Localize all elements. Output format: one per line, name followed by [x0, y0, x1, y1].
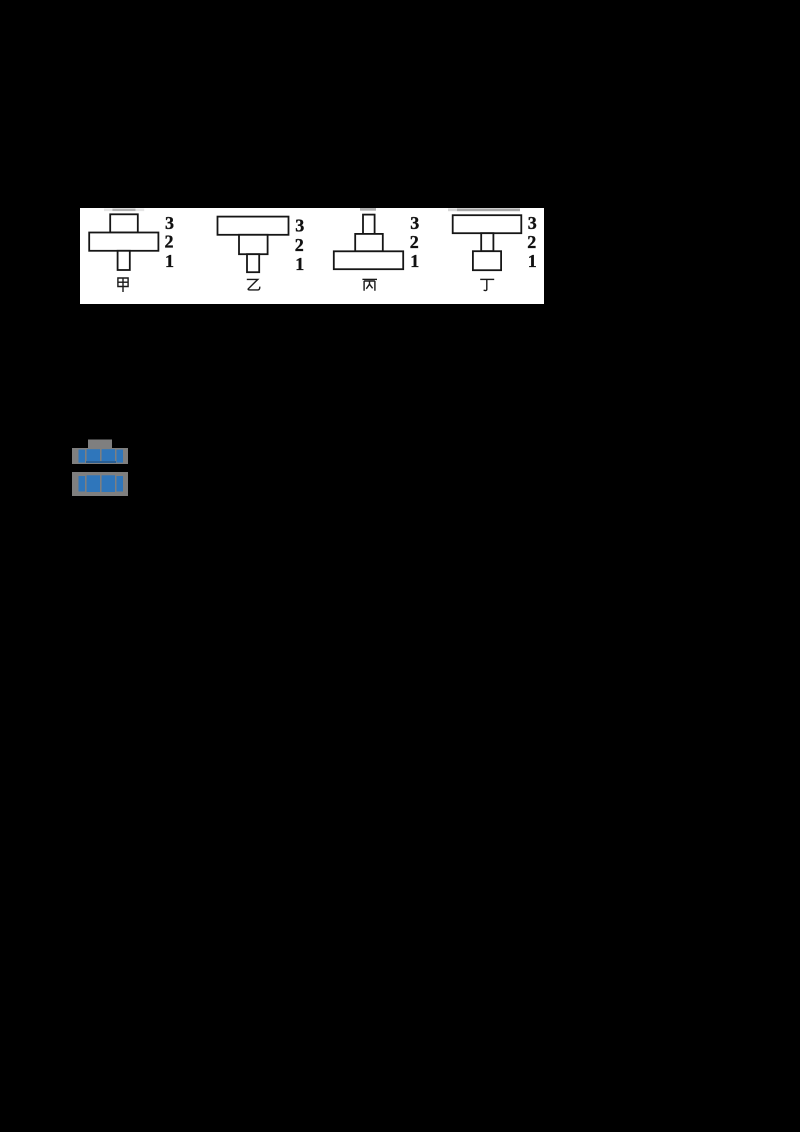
block 1 of 乙 (bottom stem)	[247, 254, 259, 272]
svg-text:3: 3	[165, 213, 174, 233]
answer row gray highlight	[72, 448, 128, 464]
block 2 of 甲 (wide middle)	[89, 233, 158, 251]
blue text 解析 row	[79, 475, 124, 492]
block 2 of 乙 (middle)	[239, 235, 268, 254]
block 1 of 丁 (bottom)	[473, 251, 501, 270]
label 甲	[118, 278, 128, 292]
analysis row gray highlight	[72, 472, 128, 496]
svg-text:3: 3	[410, 213, 419, 233]
svg-text:2: 2	[165, 232, 174, 252]
gray tab above answer row	[88, 440, 112, 449]
svg-text:1: 1	[165, 251, 174, 271]
top-edge gray smudge over 丙	[360, 208, 376, 211]
svg-text:1: 1	[410, 251, 419, 271]
svg-text:1: 1	[295, 254, 304, 274]
svg-text:3: 3	[295, 216, 304, 236]
top-edge gray smudge over 丁	[448, 208, 520, 211]
block 2 of 丁 (stem)	[481, 233, 493, 251]
svg-text:2: 2	[527, 232, 536, 252]
top-edge gray smudge over 甲	[104, 209, 144, 212]
block 3 of 丁 (top wide)	[453, 215, 522, 233]
svg-text:1: 1	[528, 251, 537, 271]
label 丙	[362, 279, 377, 290]
blue text 答案 row	[79, 449, 124, 463]
block 1 of 丙 (bottom wide)	[334, 251, 403, 269]
block 1 of 甲 (bottom stem)	[118, 251, 130, 270]
block 3 of 乙 (top wide)	[218, 217, 289, 235]
svg-text:3: 3	[528, 213, 537, 233]
block 2 of 丙 (middle)	[355, 234, 383, 251]
svg-text:2: 2	[410, 232, 419, 252]
label 丁	[480, 279, 494, 290]
highlighted answer link area	[60, 430, 180, 510]
label 乙	[247, 279, 260, 290]
block 3 of 甲 (top small)	[110, 214, 138, 232]
block 3 of 丙 (top stem)	[363, 215, 375, 234]
svg-text:2: 2	[295, 235, 304, 255]
figure panel (white)	[80, 208, 544, 304]
